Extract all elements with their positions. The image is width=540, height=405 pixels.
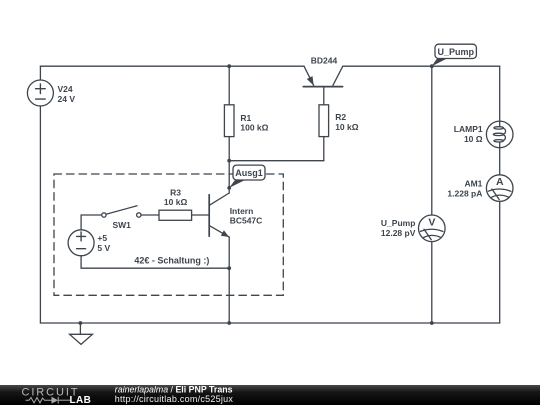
junction dot: top rail / U_Pump node — [430, 64, 434, 68]
base bar — [303, 86, 342, 88]
junction dot: emitter / 42€ wire — [227, 266, 231, 270]
svg-text:U_Pump: U_Pump — [381, 218, 415, 228]
svg-text:AM1: AM1 — [464, 178, 482, 188]
label R2 / 10 kΩ — [335, 112, 359, 132]
junction dot: Ausg1 node — [227, 186, 231, 190]
collector lead diagonal — [333, 66, 343, 85]
wire: NPN emitter to bottom rail — [228, 268, 230, 323]
label R3 / 10 kΩ — [164, 187, 188, 207]
label Intern / BC547C — [230, 206, 263, 226]
svg-text:A: A — [496, 176, 504, 188]
junction dot: ground tap — [79, 321, 83, 325]
svg-text:LAMP1: LAMP1 — [454, 124, 483, 134]
dashed subcircuit box — [54, 174, 283, 295]
resistor R2 — [319, 105, 329, 137]
svg-text:R1: R1 — [240, 113, 251, 123]
svg-text:BD244: BD244 — [311, 55, 338, 65]
svg-text:LAB: LAB — [70, 395, 92, 405]
svg-text:Intern: Intern — [230, 206, 254, 216]
junction dot: R1 bottom / R2 link — [227, 159, 231, 163]
svg-text:5 V: 5 V — [97, 243, 110, 253]
emitter lead down to 42€ wire — [228, 237, 230, 268]
wire: +5 source top lead up to switch level — [81, 215, 102, 230]
wire: right rail lower (AM1 to bottom rail) — [499, 201, 501, 323]
emitter arrowhead — [307, 76, 314, 86]
wire: R1 top lead — [228, 66, 230, 105]
wire: +5 source bottom lead down to 42€ wire — [81, 256, 229, 268]
svg-text:1.228 pA: 1.228 pA — [447, 188, 482, 198]
svg-text:R3: R3 — [170, 187, 181, 197]
svg-text:42€ - Schaltung :): 42€ - Schaltung :) — [134, 256, 209, 266]
emitter arrowhead — [221, 230, 229, 237]
svg-text:SW1: SW1 — [112, 220, 131, 230]
wire: right rail upper (top rail to LAMP1) — [499, 66, 501, 121]
svg-text:100 kΩ: 100 kΩ — [240, 123, 268, 133]
wire: top rail left (V24 to BD244 emitter) — [40, 65, 304, 67]
junction dot: emitter branch / bottom rail — [227, 321, 231, 325]
svg-text:http://circuitlab.com/c525jux: http://circuitlab.com/c525jux — [115, 394, 234, 404]
transistor Intern BC547C (NPN) — [209, 193, 229, 268]
junction dot: voltmeter branch / bottom rail — [430, 321, 434, 325]
svg-text:+5: +5 — [97, 233, 107, 243]
junction dot: top rail / R1 — [227, 64, 231, 68]
wire: bottom rail — [40, 322, 499, 324]
wire: top rail right (BD244 collector to right corner) — [343, 65, 500, 67]
ammeter AM1 — [486, 175, 513, 202]
svg-text:V: V — [428, 216, 435, 228]
label U_Pump / 12.28 pV — [381, 218, 416, 238]
emitter diagonal — [210, 226, 230, 237]
wire: right rail between LAMP1 and AM1 — [499, 148, 501, 175]
svg-text:Ausg1: Ausg1 — [235, 168, 263, 178]
svg-text:BC547C: BC547C — [230, 216, 263, 226]
svg-text:U_Pump: U_Pump — [437, 47, 474, 57]
emitter lead diagonal — [304, 66, 314, 85]
svg-text:10 kΩ: 10 kΩ — [164, 197, 188, 207]
CircuitLab logo squiggle (resistor + diode) — [26, 397, 71, 404]
wire: Ausg1 node drop (junction to NPN collector) — [228, 161, 230, 193]
label LAMP1 / 10 Ω — [454, 124, 483, 144]
svg-text:V24: V24 — [58, 84, 73, 94]
wire: switch to R3 — [141, 214, 159, 216]
base bar — [208, 195, 210, 237]
label V24 / 24 V — [58, 84, 76, 104]
svg-text:12.28 pV: 12.28 pV — [381, 228, 416, 238]
resistor R1 — [224, 105, 234, 137]
wire: R2 bottom lead — [323, 137, 325, 161]
svg-text:rainerlapalma / Eli PNP Trans: rainerlapalma / Eli PNP Trans — [115, 385, 233, 395]
net flag Ausg1 — [229, 165, 265, 188]
collector diagonal — [210, 193, 230, 205]
voltage source +5 (5 V) — [68, 230, 94, 256]
ground symbol — [70, 323, 93, 344]
transistor Q BD244 (PNP) — [303, 66, 343, 105]
switch SW1 — [102, 206, 141, 217]
wire: voltmeter branch upper (U_Pump node down to voltmeter) — [431, 66, 433, 215]
wire: left rail bottom (V24 bottom to bottom rail) — [39, 106, 41, 323]
svg-text:10 Ω: 10 Ω — [464, 134, 483, 144]
wire: voltmeter branch lower (voltmeter to bottom rail) — [431, 242, 433, 323]
label +5 / 5 V — [97, 233, 110, 253]
lamp LAMP1 — [486, 121, 513, 148]
label AM1 / 1.228 pA — [447, 178, 482, 198]
voltmeter U_Pump — [419, 215, 446, 242]
label R1 / 100 kΩ — [240, 113, 268, 133]
resistor R3 — [159, 210, 192, 220]
voltage source V24 — [27, 80, 53, 106]
wire: R3 to NPN base — [192, 214, 210, 216]
base lead to R2 — [323, 87, 325, 105]
wire: left rail top (rail to V24 top) — [39, 66, 41, 80]
svg-text:24 V: 24 V — [58, 94, 76, 104]
svg-text:R2: R2 — [335, 112, 346, 122]
wire: link R1 bottom to R2 bottom — [229, 160, 324, 162]
svg-text:10 kΩ: 10 kΩ — [335, 122, 359, 132]
wire: R1 bottom lead — [228, 137, 230, 161]
net flag U_Pump — [432, 44, 477, 66]
